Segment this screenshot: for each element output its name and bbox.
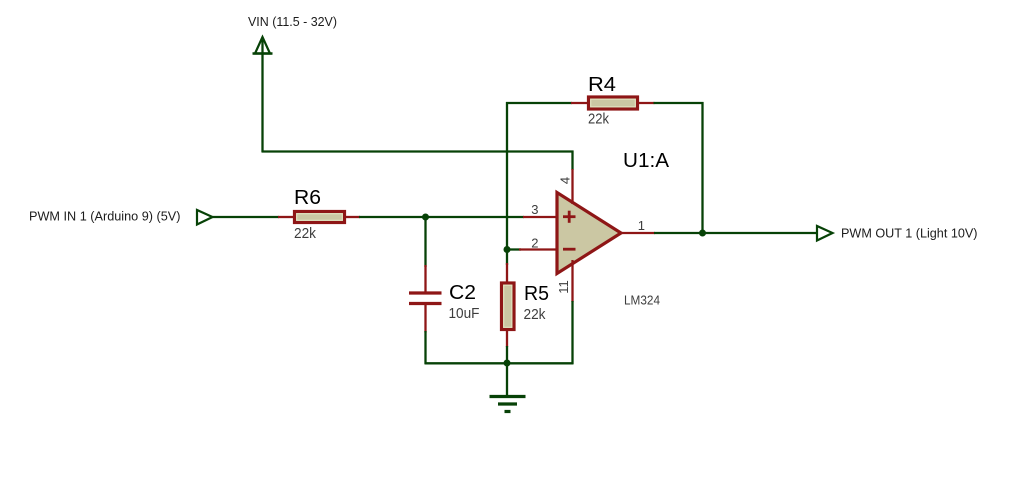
wire R4 left leg — [506, 102, 508, 250]
svg-text:R4: R4 — [588, 74, 616, 96]
wire ground stub — [506, 363, 508, 397]
wire R4 right leg — [701, 102, 703, 233]
svg-text:PWM IN 1 (Arduino 9) (5V): PWM IN 1 (Arduino 9) (5V) — [29, 209, 181, 224]
wire node B to pin2 — [507, 248, 521, 250]
junction dot ground node — [504, 360, 511, 367]
svg-text:LM324: LM324 — [624, 293, 660, 308]
power arrow VIN — [253, 37, 273, 54]
pin 3 wire — [523, 216, 557, 218]
svg-text:3: 3 — [531, 202, 538, 217]
op-amp minus symbol — [563, 248, 576, 251]
wire VIN horizontal — [262, 150, 574, 152]
svg-text:2: 2 — [531, 236, 538, 251]
wire R4 top right — [654, 102, 704, 104]
wire bottom rail — [425, 362, 574, 364]
pin 1 wire — [620, 232, 655, 234]
op-amp plus symbol — [563, 211, 576, 223]
wire R6 to node A — [359, 216, 524, 218]
input terminal — [197, 210, 213, 225]
svg-text:U1:A: U1:A — [623, 150, 670, 172]
svg-text:11: 11 — [556, 280, 571, 294]
wire output — [654, 232, 818, 234]
svg-text:R6: R6 — [294, 187, 321, 209]
wire R4 top left — [506, 102, 572, 104]
svg-text:10uF: 10uF — [449, 305, 480, 322]
node A junction dot — [422, 214, 429, 221]
svg-text:R5: R5 — [524, 283, 549, 305]
resistor R5 — [502, 263, 515, 347]
svg-text:1: 1 — [638, 218, 645, 233]
svg-text:22k: 22k — [524, 306, 546, 323]
capacitor C2 — [409, 265, 442, 333]
ground — [490, 397, 526, 412]
output terminal — [817, 226, 833, 241]
svg-text:C2: C2 — [449, 282, 476, 304]
op-amp U1 body — [557, 193, 621, 274]
svg-text:22k: 22k — [294, 225, 316, 242]
svg-text:VIN (11.5 - 32V): VIN (11.5 - 32V) — [248, 14, 337, 29]
resistor R4 — [571, 97, 655, 109]
pin 2 wire — [519, 248, 557, 250]
resistor R6 — [278, 212, 360, 223]
wire node A down to C2 — [424, 216, 426, 267]
pin 4 wire — [571, 169, 573, 204]
wire R5 to bottom rail — [506, 346, 508, 364]
svg-text:PWM OUT 1 (Light 10V): PWM OUT 1 (Light 10V) — [841, 225, 978, 240]
node B junction dot pin2 — [504, 246, 511, 253]
pin 11 wire — [571, 260, 573, 302]
wire input to R6 — [213, 216, 280, 218]
wire C2 to bottom rail — [424, 331, 426, 364]
wire node B stub — [506, 249, 508, 265]
junction dot output node — [699, 230, 706, 237]
svg-text:22k: 22k — [588, 111, 609, 128]
wire pin11 to bottom rail — [571, 301, 573, 364]
wire VIN vertical — [261, 38, 263, 152]
svg-text:4: 4 — [558, 177, 573, 184]
wire pin4 drop green — [571, 151, 573, 171]
